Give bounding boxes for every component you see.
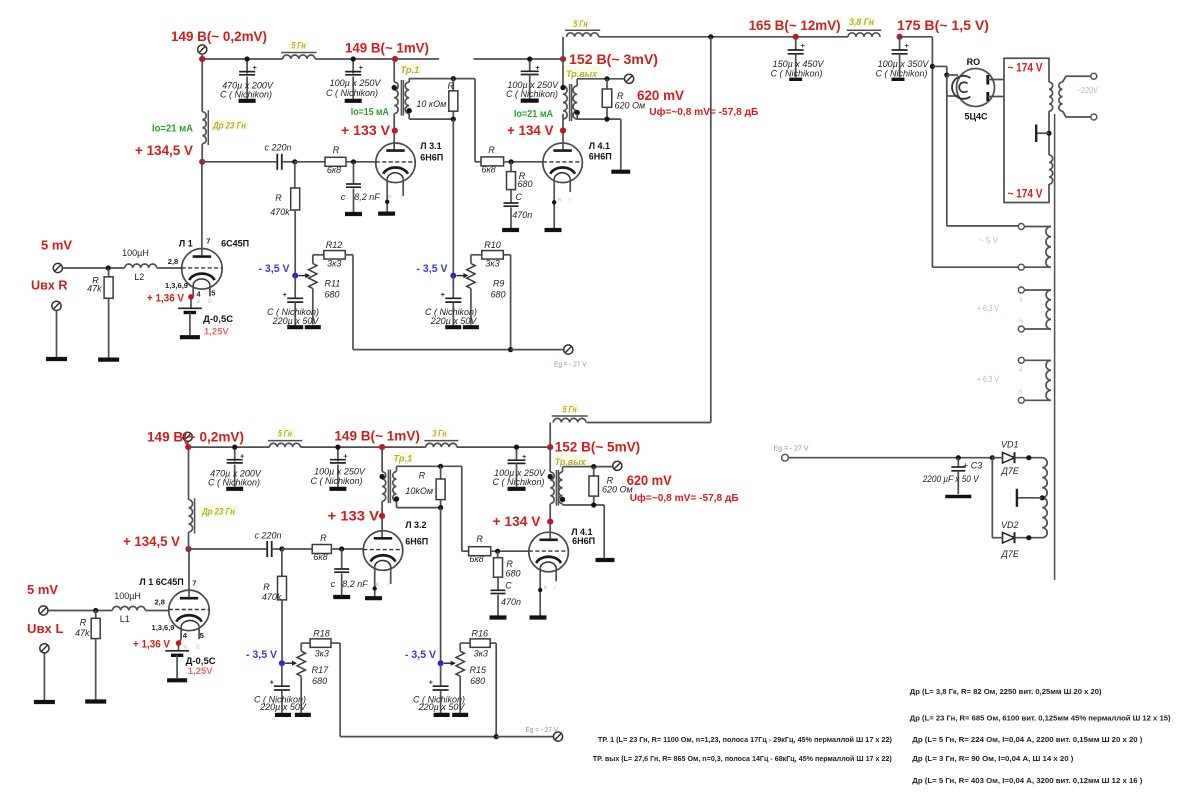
wire Tr.1 L secondary top bbox=[397, 464, 462, 552]
ground bias R9 cap bbox=[445, 325, 461, 329]
label R17 680 bbox=[312, 665, 330, 686]
svg-text:6Н6П: 6Н6П bbox=[589, 151, 612, 161]
resistor R 470k L bbox=[278, 549, 287, 663]
svg-text:- 3,5 V: - 3,5 V bbox=[259, 263, 291, 275]
svg-text:+: + bbox=[283, 290, 288, 299]
wire to R 6k8 L bbox=[282, 548, 312, 550]
node 149V 1mV L bbox=[379, 444, 385, 450]
label 5 Gn bbox=[289, 40, 309, 52]
pin 4 L bbox=[183, 631, 188, 640]
svg-text:Uвх L: Uвх L bbox=[27, 621, 64, 636]
svg-text:680: 680 bbox=[312, 676, 327, 686]
ground cathode L3.1 bbox=[378, 212, 395, 216]
capacitor C 220u x 50V bias R15 bbox=[413, 663, 465, 713]
svg-text:5 mV: 5 mV bbox=[41, 238, 72, 253]
terminal 6,3V-1 bottom bbox=[1018, 326, 1024, 332]
terminal Eg source bbox=[782, 454, 789, 461]
inductor 5 Gn filter L bbox=[268, 441, 302, 448]
pin 5 L bbox=[200, 631, 204, 640]
label Io=21 mA bbox=[152, 123, 193, 134]
svg-text:R: R bbox=[320, 533, 327, 543]
svg-text:R12: R12 bbox=[326, 240, 343, 250]
label -3,5 V second bbox=[417, 263, 449, 275]
input ground terminal R bbox=[52, 301, 61, 357]
ground R 47k L bbox=[85, 699, 106, 703]
svg-text:6к8: 6к8 bbox=[481, 165, 495, 175]
svg-text:7: 7 bbox=[192, 579, 196, 588]
svg-text:VD1: VD1 bbox=[1001, 440, 1019, 450]
pin letters L1 L bbox=[184, 643, 200, 651]
wire L1 to grid bbox=[145, 610, 169, 612]
label R 470k L bbox=[262, 582, 282, 602]
label 165 В(~ 12mV) bbox=[749, 17, 841, 33]
label Eg = -27V R-channel bbox=[554, 359, 587, 368]
label L1 R bbox=[179, 239, 193, 249]
label L1 6S45P bbox=[139, 577, 183, 587]
capacitor C 100u x 350V PSU bbox=[875, 37, 929, 79]
terminal 220V bottom bbox=[1091, 114, 1097, 120]
node +1,36V R bbox=[188, 294, 194, 300]
inductor 3,8 Gn bbox=[847, 30, 882, 37]
svg-text:в: в bbox=[544, 584, 548, 591]
label 3 Gn L bbox=[431, 428, 449, 439]
node rail L at choke bbox=[185, 444, 191, 450]
node +1,36V L bbox=[176, 640, 182, 646]
svg-text:+: + bbox=[905, 41, 910, 50]
svg-text:+ 1,36 V: + 1,36 V bbox=[133, 639, 171, 651]
wire anode L1 L to node bbox=[188, 549, 190, 597]
pin letters L3.2 bbox=[376, 581, 392, 588]
svg-text:Д7Е: Д7Е bbox=[1001, 549, 1020, 559]
label +1,36 V L bbox=[133, 639, 171, 651]
wire Eg bias rail L-channel bbox=[340, 643, 553, 739]
inductor 5 Gn L to PSU bbox=[550, 416, 588, 447]
svg-text:C ( Nichikon): C ( Nichikon) bbox=[310, 476, 362, 486]
capacitor C 100u x 250V second L bbox=[508, 445, 528, 487]
svg-text:5: 5 bbox=[1019, 389, 1023, 396]
primary 220V winding bbox=[1059, 76, 1091, 117]
svg-text:+ 133 V: + 133 V bbox=[328, 507, 380, 523]
svg-text:5: 5 bbox=[200, 631, 204, 640]
svg-text:680: 680 bbox=[517, 179, 532, 189]
note TR.vyh parameters bbox=[593, 754, 892, 763]
svg-text:175 В(~ 1,5 V): 175 В(~ 1,5 V) bbox=[897, 17, 989, 33]
resistor R18 3k3 bbox=[301, 639, 340, 651]
svg-text:3к3: 3к3 bbox=[315, 648, 329, 658]
label Uf R-channel bbox=[649, 106, 758, 118]
transformer Tr.1 R-channel primary bbox=[392, 82, 399, 114]
transformer Tr.1 secondary bbox=[405, 82, 412, 114]
wire cathode L4.1 to ground bbox=[552, 192, 556, 228]
label R12 3k3 bbox=[326, 240, 343, 268]
note Dr 5 Gn second bbox=[912, 776, 1143, 785]
svg-text:+ 133 V: + 133 V bbox=[341, 122, 391, 138]
svg-text:6к8: 6к8 bbox=[313, 552, 327, 562]
label C 220n bbox=[264, 143, 291, 153]
svg-text:2200 µF x 50 V: 2200 µF x 50 V bbox=[922, 474, 980, 484]
svg-text:2,8: 2,8 bbox=[154, 598, 164, 607]
ground Tr.vyh secondary R bbox=[611, 170, 630, 174]
label D-0,5S R bbox=[203, 314, 233, 325]
terminal output L bbox=[613, 461, 622, 470]
tube L1 6S45P R-channel bbox=[182, 248, 223, 296]
svg-text:6к8: 6к8 bbox=[327, 165, 341, 175]
winding 6,3V first bbox=[1024, 290, 1051, 329]
svg-text:470n: 470n bbox=[512, 210, 532, 220]
wire cathode L3.2 to ground bbox=[373, 584, 377, 597]
svg-text:L1: L1 bbox=[120, 614, 130, 624]
label +134 V L bbox=[493, 513, 542, 529]
svg-text:100µ x 250V: 100µ x 250V bbox=[314, 466, 366, 476]
svg-text:149 В(~ 0,2mV): 149 В(~ 0,2mV) bbox=[171, 28, 267, 44]
ground C 8,2nF bbox=[345, 212, 362, 216]
capacitor C 220n L bbox=[267, 541, 284, 557]
input terminal R bbox=[53, 263, 62, 272]
ground C 470u L bbox=[226, 487, 243, 491]
note Dr 3 Gn bbox=[912, 754, 1074, 763]
svg-text:Eg = - 27 V: Eg = - 27 V bbox=[554, 359, 587, 368]
label ~5V bbox=[979, 236, 999, 245]
svg-text:R: R bbox=[80, 617, 87, 627]
label R16 3k3 bbox=[472, 629, 489, 659]
svg-text:R15: R15 bbox=[470, 665, 488, 675]
svg-text:C ( Nichikon): C ( Nichikon) bbox=[492, 477, 544, 487]
wire B+ rail R-channel bbox=[202, 58, 563, 60]
svg-text:с: с bbox=[341, 192, 346, 202]
resistor R 6k8 second R bbox=[475, 157, 543, 166]
svg-text:Др (L= 3,8 Гк, R= 82 Ом, 2250: Др (L= 3,8 Гк, R= 82 Ом, 2250 вит. 0,25м… bbox=[910, 687, 1102, 696]
diode VD2 D7E bbox=[992, 532, 1042, 543]
svg-text:R11: R11 bbox=[324, 279, 340, 289]
capacitor C 470u x 200V bbox=[239, 56, 257, 98]
svg-text:3,8 Гн: 3,8 Гн bbox=[849, 17, 874, 28]
wire to R 6k8 bbox=[295, 161, 325, 163]
svg-text:+ 6,3 V: + 6,3 V bbox=[977, 375, 1000, 384]
ground C 150u bbox=[789, 78, 802, 81]
node +134.5V L-channel bbox=[185, 546, 191, 552]
svg-text:в: в bbox=[388, 194, 392, 201]
winding 6,3V second bbox=[1024, 360, 1051, 400]
svg-text:+: + bbox=[270, 678, 275, 687]
svg-text:C ( Nichikon): C ( Nichikon) bbox=[326, 88, 378, 98]
svg-text:220µ x 50V: 220µ x 50V bbox=[430, 316, 478, 326]
svg-text:ТР. 1 (L= 23 Гн, R= 1100 Ом, n: ТР. 1 (L= 23 Гн, R= 1100 Ом, n=1,23, пол… bbox=[598, 735, 892, 744]
svg-text:C ( Nichikon): C ( Nichikon) bbox=[875, 69, 927, 79]
wire Tr.vyh L secondary bottom bbox=[563, 502, 605, 558]
transformer Tr.vyh secondary R bbox=[573, 86, 580, 119]
tube L3.2 6N6P bbox=[363, 531, 403, 584]
svg-text:Io=21 мА: Io=21 мА bbox=[152, 123, 193, 134]
ground potentiometer R17 bbox=[295, 713, 311, 717]
wire input L bbox=[48, 608, 112, 613]
svg-text:220µ x 50V: 220µ x 50V bbox=[259, 702, 307, 712]
svg-text:в: в bbox=[184, 644, 188, 651]
svg-text:Uф=~0,8 mV= -57,8 дБ: Uф=~0,8 mV= -57,8 дБ bbox=[649, 106, 758, 118]
label R 620 Om L bbox=[602, 475, 633, 494]
svg-text:L2: L2 bbox=[134, 272, 144, 282]
label +6,3V first bbox=[977, 304, 1000, 313]
label 149 В(~ 0,2mV) L bbox=[147, 429, 244, 445]
label Io=15 mA bbox=[351, 107, 389, 118]
wire B+ rail L-channel bbox=[188, 446, 550, 448]
svg-text:C: C bbox=[515, 192, 522, 202]
svg-text:R: R bbox=[617, 91, 624, 101]
inductor 3 Gn L bbox=[424, 441, 458, 448]
svg-text:C ( Nichikon): C ( Nichikon) bbox=[220, 89, 272, 99]
label 149 В(~ 1mV) L bbox=[334, 427, 420, 443]
svg-text:R: R bbox=[476, 534, 483, 544]
svg-text:+: + bbox=[253, 63, 258, 72]
pin marks 6,3V-2 bbox=[1019, 367, 1023, 396]
svg-text:R18: R18 bbox=[313, 629, 330, 639]
resistor R 470k bbox=[291, 162, 300, 276]
svg-text:6к8: 6к8 bbox=[469, 554, 483, 564]
wire L-channel to top rail bbox=[587, 37, 711, 423]
node 149V rail R-channel, input terminal bbox=[198, 45, 207, 59]
node 152V bbox=[560, 56, 566, 62]
label 2,8 L bbox=[154, 598, 164, 607]
capacitor C 470n L bbox=[491, 581, 522, 616]
svg-text:220µ x 50V: 220µ x 50V bbox=[272, 316, 320, 326]
label Tr.1 bbox=[399, 64, 421, 77]
label R 10kOm L bbox=[405, 471, 433, 496]
label 1,3,6,9 L bbox=[152, 623, 175, 632]
wire Tr.vyh L primary bottom to anode bbox=[549, 504, 551, 539]
wire Tr.vyh L secondary top bbox=[563, 464, 613, 472]
svg-text:Eg = - 27 V: Eg = - 27 V bbox=[774, 443, 809, 452]
svg-text:8,2 nF: 8,2 nF bbox=[354, 192, 380, 202]
ground C3 bbox=[945, 495, 971, 499]
arrow to potentiometer R9 bbox=[457, 273, 469, 278]
resistor R 10kOm L bbox=[436, 466, 445, 507]
svg-text:VD2: VD2 bbox=[1001, 520, 1019, 530]
label +134 V R bbox=[507, 122, 554, 138]
svg-text:165 В(~ 12mV): 165 В(~ 12mV) bbox=[749, 17, 841, 33]
battery D-0,5S L bbox=[165, 651, 189, 678]
wire Tr.1 L secondary bottom bbox=[397, 501, 444, 663]
label L2 bbox=[134, 272, 144, 282]
label Eg = -27 V source bbox=[774, 443, 809, 452]
svg-text:в: в bbox=[558, 197, 562, 204]
wire anode L1 R to node bbox=[201, 162, 203, 256]
ground R 47k R bbox=[98, 358, 119, 362]
pin letters L3.1 bbox=[388, 194, 404, 201]
resistor R 620 Om L bbox=[589, 467, 599, 505]
wire Tr.1 primary bottom to anode bbox=[393, 114, 395, 150]
svg-text:5: 5 bbox=[211, 289, 215, 298]
label 2,8 R bbox=[168, 257, 178, 266]
wire rail to Tr.vyh primary bbox=[562, 59, 564, 86]
svg-text:6С45П: 6С45П bbox=[221, 239, 249, 249]
wire L2 to grid bbox=[157, 267, 182, 269]
label R 620 Om bbox=[615, 91, 646, 111]
HV winding upper bbox=[1049, 82, 1053, 111]
input ground terminal L bbox=[40, 644, 49, 700]
resistor R 6k8 second L bbox=[462, 547, 529, 556]
label 5 mV L bbox=[27, 582, 58, 597]
ground of C 470u bbox=[239, 99, 256, 103]
label 5 Gn L top bbox=[561, 404, 579, 416]
potentiometer R17 680 bbox=[297, 651, 305, 713]
label Tr.1 L bbox=[392, 453, 414, 465]
note TR.1 parameters bbox=[598, 735, 892, 744]
terminal 6,3V-2 bottom bbox=[1018, 397, 1024, 403]
label R15 680 bbox=[470, 665, 488, 686]
label R 47k L bbox=[75, 617, 90, 638]
node +133V anode bbox=[392, 128, 398, 134]
svg-text:5: 5 bbox=[1019, 318, 1023, 325]
svg-text:C: C bbox=[505, 581, 512, 591]
arrow to potentiometer R11 bbox=[299, 273, 311, 278]
HV secondary loop box bbox=[1004, 58, 1049, 202]
svg-text:+: + bbox=[441, 290, 446, 299]
svg-text:~ 174 V: ~ 174 V bbox=[1008, 61, 1043, 75]
capacitor C 220u x 50V bias R17 bbox=[254, 663, 307, 713]
svg-text:- 3,5 V: - 3,5 V bbox=[246, 649, 278, 661]
transformer Tr.vyh primary R bbox=[560, 85, 567, 119]
label 1,25V R bbox=[204, 327, 229, 338]
choke Dr 23 Gn L bbox=[189, 447, 195, 549]
label 5 Gn top bbox=[572, 19, 589, 30]
ground cathode L3.2 bbox=[365, 596, 382, 600]
label Tr.vyh R bbox=[564, 66, 600, 80]
label Uvh L bbox=[27, 621, 64, 636]
label L4.1 bbox=[589, 141, 612, 162]
svg-text:Л 3.2: Л 3.2 bbox=[405, 520, 426, 530]
resistor R 6k8 first L bbox=[312, 545, 331, 554]
label Io=21 mA second bbox=[514, 109, 553, 120]
capacitor C 100u x 250V first bbox=[345, 56, 363, 98]
label Eg = -27V L bbox=[526, 725, 559, 734]
svg-text:7: 7 bbox=[206, 236, 210, 245]
capacitor C 8,2nF L bbox=[331, 549, 369, 595]
ground potentiometer R9 bbox=[463, 325, 479, 329]
label R 6k8 second bbox=[481, 145, 495, 175]
svg-text:R: R bbox=[488, 145, 495, 155]
note Dr 3,8 Gn bbox=[910, 687, 1102, 696]
svg-text:- 3,5 V: - 3,5 V bbox=[405, 649, 437, 661]
wire rail to Tr.vyh L primary bbox=[549, 447, 551, 472]
battery D-0,5S R bbox=[178, 308, 202, 335]
svg-text:R10: R10 bbox=[484, 240, 501, 250]
capacitor C 470u x 200V L bbox=[227, 445, 245, 487]
svg-text:в: в bbox=[197, 298, 201, 305]
terminal 5V bottom bbox=[1018, 264, 1024, 270]
svg-text:149 В(~ 1mV): 149 В(~ 1mV) bbox=[345, 39, 429, 55]
pin 4 R bbox=[196, 289, 201, 298]
pin letters L4.1 bbox=[558, 197, 572, 204]
svg-text:ТР. вых (L= 27,6 Гн, R= 865 Ом: ТР. вых (L= 27,6 Гн, R= 865 Ом, n=0,3, п… bbox=[593, 754, 892, 763]
label 1,25V L bbox=[188, 666, 213, 677]
svg-text:R: R bbox=[419, 471, 426, 481]
svg-text:R: R bbox=[333, 145, 340, 155]
label R 47k R bbox=[87, 276, 102, 294]
svg-text:с 220n: с 220n bbox=[264, 143, 291, 153]
label 620 mV bbox=[637, 88, 684, 103]
label 100u 250V bbox=[326, 78, 381, 98]
label 5 mV R bbox=[41, 238, 72, 253]
label 100u 250V second L bbox=[492, 468, 545, 487]
transformer Tr.vyh L secondary bbox=[559, 472, 566, 504]
input terminal L bbox=[39, 606, 48, 615]
svg-text:5 Гн: 5 Гн bbox=[278, 428, 292, 439]
label R18 3k3 bbox=[313, 629, 330, 659]
svg-text:1,25V: 1,25V bbox=[204, 327, 229, 338]
capacitor C 100u x 250V L first bbox=[330, 445, 348, 487]
node bias R9 bbox=[450, 273, 456, 279]
wire rail to Tr.1 L primary bbox=[381, 447, 383, 472]
pin marks 6,3V-1 bbox=[1019, 297, 1023, 326]
svg-text:680: 680 bbox=[470, 676, 485, 686]
svg-text:5Ц4С: 5Ц4С bbox=[964, 112, 988, 122]
resistor R 47k R bbox=[104, 268, 113, 358]
svg-text:R9: R9 bbox=[493, 279, 505, 289]
svg-text:Др (L= 3 Гн, R= 90 Ом, I=0,04: Др (L= 3 Гн, R= 90 Ом, I=0,04 А, Ш 14 x … bbox=[912, 754, 1074, 763]
pin 7 label L bbox=[192, 579, 196, 588]
svg-text:470n: 470n bbox=[501, 597, 521, 607]
wire input R bbox=[62, 265, 124, 270]
ground bias R11 cap bbox=[287, 325, 303, 329]
label 5 Gn L bbox=[276, 428, 296, 439]
svg-text:152 В(~ 5mV): 152 В(~ 5mV) bbox=[555, 438, 641, 454]
node 152V L bbox=[547, 444, 553, 450]
svg-text:149 В(~ 0,2mV): 149 В(~ 0,2mV) bbox=[147, 429, 244, 445]
node 149V 1mV bbox=[392, 56, 398, 62]
node rail at choke bbox=[199, 56, 205, 62]
label 149 В(~ 1mV) bbox=[345, 39, 429, 55]
bias winding center tap bbox=[1017, 489, 1045, 507]
svg-text:4: 4 bbox=[1019, 367, 1023, 374]
svg-text:Др (L= 5 Гн, R= 403 Ом, I=0,04: Др (L= 5 Гн, R= 403 Ом, I=0,04 А, 3200 в… bbox=[912, 776, 1143, 785]
capacitor C 100u x 250V second R bbox=[521, 56, 541, 98]
label ~220V bbox=[1077, 86, 1099, 95]
label L3.1 bbox=[420, 141, 443, 163]
ground C 100u L bbox=[329, 487, 346, 491]
label R10 3k3 bbox=[484, 240, 501, 268]
terminal Eg L-channel bbox=[553, 732, 562, 741]
svg-text:152 В(~ 3mV): 152 В(~ 3mV) bbox=[569, 51, 658, 67]
wire Eg horizontal bbox=[788, 455, 995, 460]
capacitor C 220n R bbox=[277, 154, 297, 170]
svg-text:47k: 47k bbox=[87, 283, 102, 293]
label ~174 V top bbox=[1008, 61, 1043, 75]
svg-text:R: R bbox=[275, 193, 282, 203]
HV winding lower bbox=[1049, 111, 1053, 184]
svg-text:R: R bbox=[448, 81, 455, 91]
svg-text:Л 1 6С45П: Л 1 6С45П bbox=[139, 577, 183, 587]
svg-text:3к3: 3к3 bbox=[474, 648, 488, 658]
choke Dr 23 Gn R-channel bbox=[202, 59, 208, 162]
label 100uH L2 bbox=[122, 248, 149, 258]
svg-text:+ 1,36 V: + 1,36 V bbox=[147, 292, 185, 304]
transformer Tr.1 L core bbox=[388, 470, 390, 504]
transformer Tr.1 L secondary bbox=[393, 472, 399, 502]
label D7E VD2 bbox=[1001, 549, 1020, 559]
svg-text:100µH: 100µH bbox=[122, 248, 149, 258]
note Dr 23 Gn bbox=[910, 713, 1171, 722]
svg-text:+ 134,5 V: + 134,5 V bbox=[135, 142, 194, 158]
svg-text:47k: 47k bbox=[75, 628, 90, 638]
tube L4.1 6N6P R-channel bbox=[543, 143, 583, 192]
svg-text:100µ x 350V: 100µ x 350V bbox=[878, 59, 930, 69]
svg-text:C ( Nichikon): C ( Nichikon) bbox=[770, 69, 822, 79]
svg-text:Io=15 мА: Io=15 мА bbox=[351, 107, 389, 118]
label R11 680 bbox=[324, 279, 340, 300]
label 175 В(~ 1,5 V) bbox=[897, 17, 989, 33]
svg-text:+: + bbox=[240, 451, 245, 460]
HV center tap bbox=[1036, 125, 1051, 143]
svg-text:+ 134 V: + 134 V bbox=[493, 513, 542, 529]
